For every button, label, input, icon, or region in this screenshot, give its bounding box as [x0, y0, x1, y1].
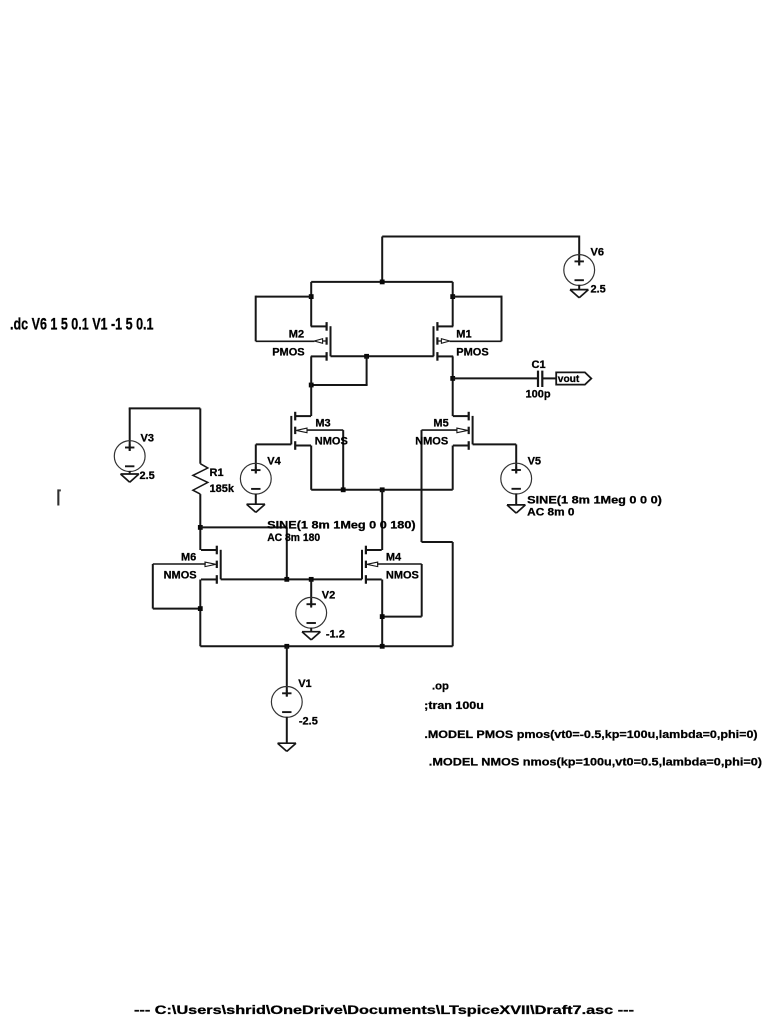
ground: [247, 503, 265, 505]
node junction gate line / V2: [309, 577, 314, 582]
wire: V2 top drop: [310, 579, 312, 606]
net flag vout: [556, 372, 591, 384]
transistor M2: [326, 322, 328, 331]
capacitor C1: [537, 371, 539, 387]
wire: output to C1: [453, 377, 538, 379]
svg-text:M5: M5: [433, 418, 448, 430]
wire: M4 drain up: [381, 490, 383, 550]
ground: [302, 631, 320, 633]
wire: C1 to vout flag: [542, 377, 556, 379]
wire: R1 tap to lower gate line: [200, 526, 286, 528]
node junction gate line / R1 tap: [284, 577, 289, 582]
svg-text:SINE(1 8m 1Meg 0 0 180): SINE(1 8m 1Meg 0 0 180): [267, 520, 416, 532]
svg-text:C1: C1: [532, 359, 546, 371]
node junction tail rail / M3 bulk: [341, 487, 346, 492]
wire: M4 source down: [381, 579, 383, 646]
wire: V3 riser and top link: [129, 408, 131, 451]
node junction R1/M6 drain tap: [198, 525, 203, 530]
svg-text:NMOS: NMOS: [386, 569, 419, 581]
node junction M4 source / bulk: [380, 614, 385, 619]
svg-text:V4: V4: [267, 455, 281, 467]
wire: diff pair tail rail: [311, 489, 453, 491]
wire: M2 drain drop: [310, 282, 312, 327]
transistor M6: [216, 546, 218, 555]
transistor M5: [468, 412, 470, 421]
node junction rail / V1: [284, 644, 289, 649]
svg-text:PMOS: PMOS: [272, 346, 304, 358]
wire: bottom negative rail: [200, 645, 452, 647]
wire: M3 gate to V4: [256, 443, 291, 445]
transistor M1: [436, 322, 438, 331]
node junction VDD rail: [380, 280, 385, 285]
svg-text:-2.5: -2.5: [299, 716, 318, 728]
voltage source V1: [271, 687, 302, 718]
node junction output node: [450, 376, 455, 381]
wire: M1 source to M5 drain (output node): [452, 356, 454, 416]
svg-text:M2: M2: [289, 328, 304, 340]
svg-text:2.5: 2.5: [140, 470, 155, 482]
node junction M1 bulk tap: [450, 294, 455, 299]
node junction M6 source / bulk: [198, 606, 203, 611]
svg-text:185k: 185k: [210, 483, 235, 495]
wire: R1 bottom to M6 drain: [199, 494, 201, 550]
svg-text:V2: V2: [322, 590, 335, 602]
wire: M1 bulk loop: [453, 296, 502, 298]
wire: M2 bulk loop: [256, 296, 312, 298]
node junction M2 bulk tap: [309, 294, 314, 299]
wire: M1 drain drop: [452, 282, 454, 327]
wire: V1 top drop: [286, 646, 288, 696]
wire: M2 source to M3 drain: [310, 356, 312, 416]
wire: V6 top drop: [578, 236, 580, 266]
voltage source V5: [501, 463, 532, 494]
node junction mirror node: [309, 383, 314, 388]
svg-text:vout: vout: [558, 374, 580, 385]
svg-text:V3: V3: [141, 433, 154, 445]
wire: top VDD feed horizontal: [382, 236, 579, 238]
wire: M5 source down: [452, 446, 454, 490]
voltage source V3: [114, 441, 145, 472]
svg-text:-1.2: -1.2: [326, 629, 345, 641]
wire: M3 bulk to tail rail: [307, 429, 344, 431]
wire: M5 gate to V5: [473, 443, 517, 445]
svg-text:NMOS: NMOS: [315, 435, 348, 447]
svg-text:2.5: 2.5: [591, 284, 606, 296]
svg-text:NMOS: NMOS: [415, 435, 448, 447]
voltage source V6: [564, 255, 595, 286]
node junction tail rail / M4 drain: [380, 487, 385, 492]
svg-text:AC 8m 180: AC 8m 180: [267, 532, 320, 544]
svg-text:M6: M6: [181, 552, 196, 564]
svg-text:R1: R1: [210, 467, 224, 479]
voltage source V4: [240, 463, 271, 494]
node junction gate link: [364, 354, 369, 359]
ground: [278, 742, 296, 744]
svg-text:V6: V6: [591, 246, 604, 258]
svg-text:.MODEL PMOS pmos(vt0=-0.5,kp=1: .MODEL PMOS pmos(vt0=-0.5,kp=100u,lambda…: [424, 729, 757, 741]
svg-text:SINE(1 8m 1Meg 0 0 0): SINE(1 8m 1Meg 0 0 0): [527, 494, 662, 506]
voltage source V2: [296, 597, 327, 628]
transistor M3: [294, 412, 296, 421]
wire: gate link drop to mirror node: [366, 356, 368, 385]
wire: M6 source down: [199, 579, 201, 646]
node junction rail / M4 source: [380, 644, 385, 649]
wire: VDD rail: [311, 281, 453, 283]
wire: M6 bulk loop: [153, 563, 206, 565]
ground: [121, 473, 139, 475]
text cursor mark: [57, 489, 59, 505]
svg-text:NMOS: NMOS: [164, 569, 197, 581]
svg-text:--- C:\Users\shrid\OneDrive\D: --- C:\Users\shrid\OneDrive\Documents\LT…: [134, 1005, 634, 1017]
ground: [570, 289, 588, 291]
svg-text:.MODEL NMOS nmos(kp=100u,vt0=0: .MODEL NMOS nmos(kp=100u,vt0=0.5,lambda=…: [429, 756, 762, 768]
wire: M3 source down: [310, 446, 312, 490]
wire: M5 bulk down: [422, 429, 458, 431]
svg-text:M1: M1: [456, 328, 471, 340]
wire: PMOS gate link: [331, 355, 434, 357]
svg-text:;tran 100u: ;tran 100u: [424, 700, 484, 712]
svg-text:AC 8m 0: AC 8m 0: [527, 507, 574, 519]
ground: [507, 504, 525, 506]
svg-text:.dc V6 1 5 0.1 V1 -1 5 0.1: .dc V6 1 5 0.1 V1 -1 5 0.1: [10, 316, 154, 334]
transistor M4: [365, 546, 367, 555]
wire: center drop to VDD rail: [381, 237, 383, 282]
svg-text:V1: V1: [298, 678, 311, 690]
svg-text:100p: 100p: [526, 389, 551, 401]
svg-text:M3: M3: [315, 418, 330, 430]
svg-text:M4: M4: [386, 552, 402, 564]
resistor R1: [193, 464, 208, 494]
svg-text:.op: .op: [432, 680, 449, 692]
svg-text:V5: V5: [528, 455, 541, 467]
wire: lower gate line M6-M4: [221, 578, 362, 580]
svg-text:PMOS: PMOS: [456, 346, 488, 358]
wire: M4 bulk loop: [377, 563, 422, 565]
